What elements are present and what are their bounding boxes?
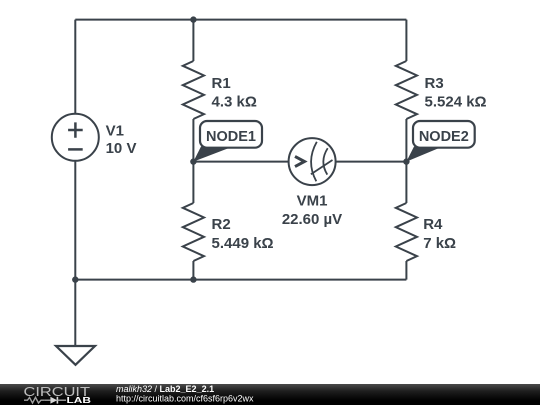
voltage source V1	[52, 114, 137, 161]
wire top rail	[75, 19, 406, 21]
wire ground stem	[74, 280, 76, 346]
wire middle right (voltmeter to NODE2)	[336, 161, 407, 163]
svg-text:5.524 kΩ: 5.524 kΩ	[425, 94, 487, 111]
resistor R1	[183, 61, 257, 119]
footer logo squiggle and diode	[24, 397, 66, 404]
svg-text:7 kΩ: 7 kΩ	[423, 235, 456, 252]
wire R3 bottom lead	[405, 119, 407, 162]
wire R1 bottom lead	[192, 119, 194, 162]
svg-text:http://circuitlab.com/cf6sf6rp: http://circuitlab.com/cf6sf6rp6v2wx	[116, 394, 254, 404]
wire R3 top lead	[405, 20, 407, 61]
wire left rail upper	[74, 20, 76, 114]
resistor R4	[396, 203, 456, 261]
voltmeter VM1	[282, 138, 342, 228]
wire bottom rail	[75, 279, 406, 281]
node NODE1 label	[193, 121, 262, 162]
svg-text:10 V: 10 V	[106, 140, 137, 157]
svg-text:NODE2: NODE2	[419, 129, 469, 145]
svg-text:malikh32 / Lab2_E2_2.1: malikh32 / Lab2_E2_2.1	[116, 384, 214, 394]
ground	[56, 346, 95, 365]
wire left rail lower	[74, 161, 76, 280]
svg-text:R1: R1	[212, 75, 231, 92]
wire R4 top lead	[405, 162, 407, 203]
resistor R3	[396, 61, 487, 119]
node NODE2 label	[406, 121, 474, 162]
svg-text:LAB: LAB	[67, 395, 92, 405]
resistor R2	[183, 203, 274, 261]
svg-text:5.449 kΩ: 5.449 kΩ	[212, 235, 274, 252]
node junction bottom left	[72, 276, 78, 282]
wire R2 bottom lead	[192, 261, 194, 280]
svg-text:22.60 µV: 22.60 µV	[282, 211, 342, 228]
svg-text:4.3 kΩ: 4.3 kΩ	[212, 94, 257, 111]
svg-text:R4: R4	[423, 216, 443, 233]
node junction top	[190, 16, 196, 22]
wire middle left (NODE1 to voltmeter)	[193, 161, 288, 163]
svg-text:V1: V1	[106, 123, 124, 140]
svg-text:R2: R2	[212, 216, 231, 233]
node NODE2 junction	[403, 158, 409, 164]
svg-text:R3: R3	[425, 75, 444, 92]
wire R1 top lead	[192, 20, 194, 61]
footer bar	[0, 384, 540, 405]
node junction bottom middle	[190, 276, 196, 282]
wire R4 bottom lead	[405, 261, 407, 280]
node NODE1 junction	[190, 158, 196, 164]
svg-text:NODE1: NODE1	[206, 129, 256, 145]
svg-text:VM1: VM1	[297, 193, 328, 210]
wire R2 top lead	[192, 162, 194, 203]
